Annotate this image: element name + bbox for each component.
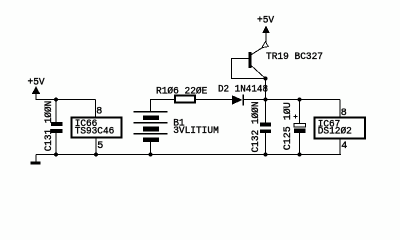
svg-text:TR19 BC327: TR19 BC327 bbox=[266, 52, 323, 63]
wire battery B1 plus lead to R106 bbox=[151, 100, 176, 112]
svg-text:R1Ø6 22ØE: R1Ø6 22ØE bbox=[156, 86, 207, 98]
wire +5V left stub bbox=[35, 94, 37, 101]
wire IC66 pin 8 riser bbox=[95, 100, 97, 118]
diode D2 1N4148 bbox=[218, 85, 268, 106]
wire +5V rail to IC66 bbox=[36, 99, 96, 101]
wire C125 bottom lead bbox=[299, 133, 301, 155]
capacitor C125 electrolytic bbox=[282, 102, 305, 150]
wire C132 bottom lead bbox=[265, 133, 267, 155]
IC U1 IC66 TS93C46 bbox=[72, 106, 122, 152]
svg-text:DS12Ø2: DS12Ø2 bbox=[318, 126, 352, 138]
junction ground / C125 bbox=[298, 153, 302, 157]
junction +5V / C131 bbox=[54, 98, 58, 102]
capacitor C131 bbox=[43, 101, 62, 152]
transistor TR19 BC327 bbox=[249, 42, 324, 79]
power +5V (left) bbox=[28, 78, 45, 94]
svg-text:4: 4 bbox=[341, 141, 347, 152]
junction ground / IC66 pin 5 bbox=[94, 153, 98, 157]
svg-text:8: 8 bbox=[341, 108, 347, 119]
junction ground / B1 bbox=[149, 153, 153, 157]
wire C131 bottom lead bbox=[55, 133, 57, 155]
wire C131 top lead bbox=[55, 100, 57, 123]
wire IC66 pin 5 riser bbox=[95, 138, 97, 155]
wire TR19 emitter to +5V bbox=[265, 33, 267, 44]
svg-text:C125 1ØU: C125 1ØU bbox=[282, 102, 294, 150]
wire ground rail bbox=[36, 154, 341, 156]
wire C125 top lead bbox=[299, 100, 301, 124]
svg-text:C132 1ØØN: C132 1ØØN bbox=[250, 102, 262, 153]
svg-text:TS93C46: TS93C46 bbox=[75, 127, 115, 138]
wire TR19 collector riser bbox=[265, 79, 267, 100]
svg-text:C131 1ØØN: C131 1ØØN bbox=[43, 101, 55, 152]
IC U2 IC67 DS1202 bbox=[315, 108, 366, 152]
wire IC67 pin 8 riser bbox=[339, 100, 341, 118]
wire D2 cathode to IC67 bbox=[244, 99, 340, 101]
junction ground / C132 bbox=[264, 153, 268, 157]
wire TR19 base-collector loop bbox=[232, 59, 266, 79]
svg-text:D2 1N4148: D2 1N4148 bbox=[218, 85, 268, 96]
wire C132 top lead bbox=[265, 100, 267, 123]
capacitor C132 bbox=[250, 102, 271, 153]
plus polarity mark of C125 bbox=[294, 116, 298, 118]
wire ground stub bbox=[35, 155, 37, 162]
junction C125 top bbox=[298, 98, 302, 102]
resistor R106 220E bbox=[156, 86, 207, 103]
svg-text:8: 8 bbox=[96, 106, 102, 117]
svg-text:5: 5 bbox=[97, 141, 103, 152]
svg-text:+5V: +5V bbox=[257, 16, 274, 27]
battery B1 3VLITIUM bbox=[134, 111, 219, 142]
junction ground / C131 bbox=[54, 153, 58, 157]
wire R106 to D2 bbox=[195, 99, 232, 101]
wire battery B1 minus lead bbox=[150, 142, 152, 155]
junction D2 cathode / C132 / TR19 bbox=[264, 98, 268, 102]
junction TR19 base-collector bbox=[264, 77, 268, 81]
power +5V (top right) bbox=[257, 16, 274, 34]
wire IC67 pin 4 riser bbox=[339, 139, 341, 155]
ground bbox=[31, 162, 41, 165]
svg-text:3VLITIUM: 3VLITIUM bbox=[173, 126, 219, 137]
